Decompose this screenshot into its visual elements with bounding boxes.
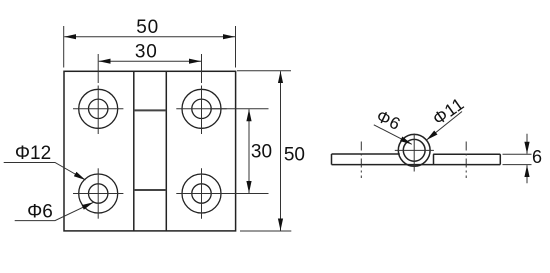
dim 6: lower arrow	[526, 165, 528, 183]
dim 50 top: right extension line	[235, 26, 237, 68]
knuckle strip lower divider	[134, 189, 167, 191]
side view	[332, 134, 501, 166]
svg-text:30: 30	[135, 42, 158, 63]
dim 30 top: dimension line with arrows	[99, 60, 201, 62]
dim 50 right: lower extension line	[240, 230, 291, 232]
dim 50 right: upper extension line	[237, 70, 291, 72]
knuckle horizontal centerline	[395, 149, 434, 151]
svg-text:Φ12: Φ12	[15, 143, 51, 164]
knuckle inner circle	[403, 139, 425, 161]
hole bottom-right inner circle	[192, 184, 211, 203]
side view right leaf top edge	[433, 153, 500, 155]
hole top-right centerlines	[176, 108, 226, 110]
dim 30 right: lower extension line	[210, 193, 269, 195]
dim 6: lower extension line	[503, 164, 532, 166]
side view bottom edge	[332, 164, 501, 166]
hole bottom-right centerlines	[176, 193, 226, 195]
dim 30 right: upper extension line	[210, 108, 269, 110]
dim 30 top: left extension line	[97, 54, 99, 83]
hole top-right inner circle	[192, 99, 211, 118]
dim 50 top: dimension line with arrows	[64, 36, 235, 38]
dim 30 top: right extension line	[201, 54, 203, 83]
dim 50 right: dimension line with arrows	[280, 71, 282, 230]
hole top-right outer circle	[182, 89, 221, 128]
label Phi12 leader	[4, 163, 86, 181]
right hole dash-dot centerline	[465, 142, 467, 179]
hole top-left centerlines	[73, 108, 123, 110]
hole top-left inner circle	[89, 99, 108, 118]
svg-text:50: 50	[136, 17, 159, 38]
side view left end	[331, 154, 333, 165]
svg-text:6: 6	[532, 147, 542, 167]
side view left leaf top edge	[332, 153, 400, 155]
dim 6: upper arrow	[526, 134, 528, 154]
svg-text:Φ11: Φ11	[429, 93, 468, 129]
hole bottom-left inner circle	[89, 184, 108, 203]
hole bottom-right outer circle	[182, 174, 221, 213]
label Phi11 side leader	[427, 112, 463, 141]
knuckle strip right edge	[165, 71, 167, 231]
front view plate outline	[64, 71, 236, 231]
knuckle strip upper divider	[134, 109, 167, 111]
side view right end	[499, 154, 501, 164]
label Phi6 side leader	[374, 125, 412, 145]
hole bottom-left outer circle	[79, 174, 118, 213]
svg-text:50: 50	[284, 145, 305, 166]
hole bottom-left centerlines	[73, 193, 123, 195]
label Phi6 leader	[15, 202, 94, 220]
knuckle strip left edge	[133, 71, 135, 231]
dim 30 right: dimension line with arrows	[248, 109, 250, 193]
svg-text:Φ6: Φ6	[27, 202, 53, 223]
dim 6: upper extension line	[503, 153, 532, 155]
side view right leaf step	[433, 154, 435, 164]
knuckle vertical centerline	[413, 134, 415, 172]
svg-text:30: 30	[251, 142, 272, 163]
hole top-left outer circle	[79, 89, 118, 128]
svg-text:Φ6: Φ6	[373, 106, 403, 134]
left hole dash-dot centerline	[360, 142, 362, 179]
dim 50 top: left extension line	[63, 26, 65, 68]
knuckle outer circle	[398, 134, 430, 166]
